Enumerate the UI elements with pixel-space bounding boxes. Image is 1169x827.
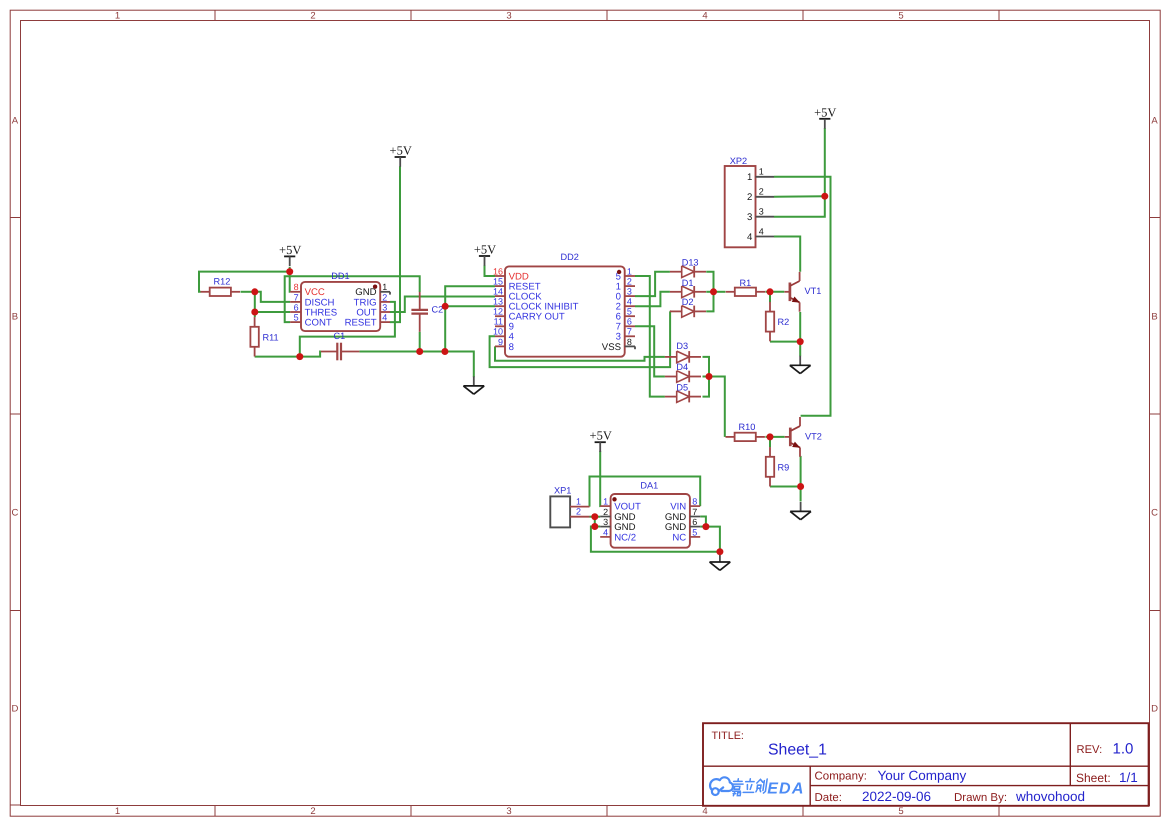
svg-text:R9: R9 (778, 463, 790, 473)
svg-text:R11: R11 (263, 333, 279, 343)
svg-text:4: 4 (702, 806, 707, 817)
svg-text:5: 5 (898, 806, 903, 817)
svg-text:11: 11 (494, 317, 503, 327)
svg-text:B: B (12, 311, 18, 322)
svg-text:C: C (11, 507, 18, 518)
svg-text:CONT: CONT (305, 318, 332, 329)
svg-text:2: 2 (382, 292, 387, 302)
svg-text:1: 1 (382, 282, 387, 292)
svg-text:7: 7 (692, 507, 697, 517)
svg-text:DD2: DD2 (561, 252, 579, 262)
svg-text:3: 3 (747, 212, 752, 223)
svg-text:D2: D2 (682, 297, 694, 307)
svg-text:EDA: EDA (767, 781, 804, 798)
svg-text:B: B (1151, 311, 1157, 322)
svg-text:8: 8 (627, 337, 632, 347)
svg-text:1.0: 1.0 (1113, 741, 1134, 758)
svg-text:3: 3 (506, 806, 511, 817)
svg-text:2: 2 (759, 187, 764, 197)
svg-text:1: 1 (627, 266, 632, 276)
svg-text:2: 2 (603, 507, 608, 517)
svg-text:DD1: DD1 (331, 271, 349, 281)
svg-text:5: 5 (294, 313, 299, 323)
svg-text:Date:: Date: (815, 792, 843, 804)
svg-text:7: 7 (294, 292, 299, 302)
svg-text:C: C (1151, 507, 1158, 518)
svg-text:whovohood: whovohood (1015, 789, 1085, 804)
svg-text:1/1: 1/1 (1119, 770, 1138, 785)
svg-text:10: 10 (493, 327, 503, 337)
svg-text:Sheet:: Sheet: (1076, 771, 1111, 785)
svg-text:1: 1 (115, 806, 120, 817)
svg-text:D5: D5 (676, 382, 688, 392)
svg-text:NC: NC (672, 532, 686, 543)
svg-text:1: 1 (576, 496, 581, 506)
svg-text:REV:: REV: (1077, 744, 1103, 756)
svg-text:Your Company: Your Company (878, 768, 967, 783)
svg-text:+5V: +5V (279, 243, 301, 257)
svg-text:D13: D13 (682, 257, 699, 267)
svg-text:9: 9 (498, 337, 503, 347)
svg-text:16: 16 (493, 266, 503, 276)
svg-text:XP1: XP1 (554, 485, 571, 495)
svg-text:2: 2 (310, 806, 315, 817)
svg-text:VT1: VT1 (805, 286, 822, 296)
svg-text:VIN: VIN (670, 502, 686, 513)
svg-text:1: 1 (603, 497, 608, 507)
svg-text:Drawn By:: Drawn By: (954, 792, 1007, 804)
svg-text:NC/2: NC/2 (614, 532, 636, 543)
svg-text:1: 1 (115, 10, 120, 21)
svg-text:3: 3 (759, 207, 764, 217)
svg-text:6: 6 (294, 302, 299, 312)
svg-text:VT2: VT2 (805, 431, 822, 441)
svg-text:D: D (1151, 703, 1158, 714)
svg-text:Sheet_1: Sheet_1 (768, 742, 827, 759)
svg-text:DA1: DA1 (640, 481, 658, 491)
svg-text:14: 14 (493, 287, 503, 297)
svg-text:A: A (12, 115, 19, 126)
svg-text:+5V: +5V (474, 243, 496, 257)
svg-text:+5V: +5V (814, 105, 836, 119)
svg-text:4: 4 (759, 226, 764, 236)
svg-text:2022-09-06: 2022-09-06 (862, 789, 931, 804)
svg-text:7: 7 (627, 327, 632, 337)
svg-text:D3: D3 (676, 341, 688, 351)
svg-text:R12: R12 (214, 277, 231, 287)
svg-text:Company:: Company: (815, 771, 867, 783)
svg-text:CARRY OUT: CARRY OUT (509, 312, 565, 323)
svg-text:4: 4 (382, 313, 387, 323)
svg-text:5: 5 (898, 10, 903, 21)
svg-text:R10: R10 (739, 422, 756, 432)
svg-text:5: 5 (692, 527, 697, 537)
svg-text:VOUT: VOUT (614, 502, 641, 513)
svg-text:XP2: XP2 (730, 156, 747, 166)
svg-text:6: 6 (692, 517, 697, 527)
svg-text:15: 15 (493, 277, 503, 287)
svg-text:4: 4 (747, 232, 753, 243)
svg-text:8: 8 (692, 497, 697, 507)
svg-text:2: 2 (627, 277, 632, 287)
svg-text:13: 13 (493, 297, 503, 307)
svg-text:+5V: +5V (590, 429, 612, 443)
svg-text:D1: D1 (682, 278, 694, 288)
svg-text:4: 4 (702, 10, 707, 21)
svg-text:TITLE:: TITLE: (712, 730, 744, 742)
svg-text:2: 2 (747, 192, 752, 203)
svg-text:4: 4 (627, 297, 632, 307)
svg-text:C2: C2 (432, 304, 444, 314)
svg-text:1: 1 (759, 167, 764, 177)
svg-text:3: 3 (382, 302, 387, 312)
svg-text:8: 8 (294, 282, 299, 292)
svg-text:RESET: RESET (345, 318, 377, 329)
svg-text:2: 2 (576, 507, 581, 517)
svg-text:D: D (11, 703, 18, 714)
svg-text:R2: R2 (778, 317, 790, 327)
svg-text:R1: R1 (740, 278, 752, 288)
svg-text:2: 2 (310, 10, 315, 21)
svg-text:A: A (1151, 115, 1158, 126)
svg-text:6: 6 (627, 317, 632, 327)
svg-text:3: 3 (627, 287, 632, 297)
svg-text:D4: D4 (676, 362, 688, 372)
svg-text:8: 8 (509, 342, 514, 353)
svg-text:12: 12 (493, 307, 503, 317)
svg-text:5: 5 (627, 307, 632, 317)
svg-text:VSS: VSS (602, 342, 621, 353)
svg-text:+5V: +5V (390, 144, 412, 158)
svg-text:4: 4 (603, 527, 608, 537)
svg-text:1: 1 (747, 172, 752, 183)
svg-text:C1: C1 (334, 331, 346, 341)
svg-text:3: 3 (603, 517, 608, 527)
svg-text:3: 3 (506, 10, 511, 21)
